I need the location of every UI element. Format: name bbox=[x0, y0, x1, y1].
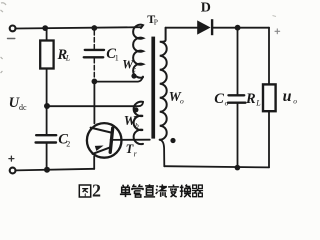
node C2 bottom junction bbox=[44, 167, 50, 173]
node W1 polarity dot bbox=[131, 73, 136, 78]
svg-text:b: b bbox=[135, 121, 139, 130]
node Wb polarity dot bbox=[133, 107, 138, 112]
wire middle rail to Wb bbox=[47, 102, 143, 106]
node output top junction bbox=[235, 25, 241, 31]
resistor RL (base resistor) bbox=[46, 28, 48, 40]
wire W1 bottom to C1 junction bbox=[94, 77, 143, 82]
caption char 变 bbox=[168, 185, 179, 197]
caption: 图 2 (figure 2) drawn strokes bbox=[79, 185, 90, 197]
diode D bbox=[197, 20, 210, 34]
scan smudge above output plus bbox=[273, 16, 277, 17]
caption char 器 bbox=[192, 185, 203, 197]
wire emitter to bottom rail bbox=[93, 156, 95, 169]
svg-text:u: u bbox=[283, 88, 292, 105]
svg-text:C: C bbox=[214, 91, 224, 107]
caption 单管直流变换器 drawn strokes bbox=[120, 184, 203, 197]
resistor RL load bbox=[268, 28, 270, 85]
wire R bottom to middle rail bbox=[46, 69, 48, 107]
transformer core bbox=[151, 37, 155, 139]
emitter arrow (PNP) bbox=[95, 146, 104, 152]
transistor collector lead bbox=[91, 128, 112, 133]
transformer winding Wb (base winding) bbox=[134, 102, 143, 144]
wire Wo bottom to rail bbox=[160, 140, 165, 167]
transformer winding W1 (collector winding) bbox=[133, 25, 143, 78]
transistor emitter lead bbox=[93, 147, 111, 154]
wire top rail bbox=[16, 27, 141, 28]
node C1 bottom junction bbox=[92, 79, 98, 85]
node C1 top junction bbox=[91, 25, 97, 31]
svg-text:2: 2 bbox=[66, 140, 70, 149]
svg-text:2: 2 bbox=[92, 181, 101, 201]
svg-text:o: o bbox=[225, 98, 229, 107]
capacitor Co bbox=[237, 28, 239, 95]
caption char 换 bbox=[180, 185, 191, 198]
node Wo polarity dot bbox=[170, 138, 175, 143]
svg-text:1: 1 bbox=[115, 54, 119, 63]
svg-text:D: D bbox=[201, 1, 211, 16]
wire bottom-left rail bbox=[16, 169, 94, 171]
caption char 图 bbox=[79, 185, 90, 197]
wire diode to output bbox=[213, 27, 269, 29]
capacitor C1 bbox=[93, 31, 95, 50]
transistor Tr circle bbox=[87, 123, 122, 158]
svg-text:o: o bbox=[293, 97, 297, 106]
node bottom-right junction bbox=[235, 165, 241, 171]
scan smudge top-left bbox=[1, 3, 7, 12]
transformer winding Wo (output winding) bbox=[160, 28, 167, 140]
svg-text:L: L bbox=[255, 99, 261, 108]
caption char 流 bbox=[156, 185, 167, 197]
caption char 管 bbox=[132, 184, 143, 197]
wire bottom-right rail bbox=[164, 166, 269, 167]
svg-text:R: R bbox=[245, 91, 256, 107]
caption char 直 bbox=[144, 184, 155, 197]
terminal input top-left (negative) bbox=[10, 26, 16, 32]
plus mark output bbox=[275, 29, 280, 34]
transistor base bar bbox=[110, 128, 113, 152]
terminal input bottom-left (positive) bbox=[10, 168, 16, 174]
svg-text:o: o bbox=[180, 97, 184, 106]
wire collector drop bbox=[93, 82, 95, 124]
node R top junction bbox=[42, 25, 48, 31]
plus mark input bbox=[9, 156, 14, 161]
transistor base lead to Wb bbox=[111, 139, 150, 141]
svg-text:P: P bbox=[154, 18, 158, 27]
svg-text:dc: dc bbox=[19, 103, 27, 112]
svg-text:L: L bbox=[65, 54, 71, 63]
node middle junction bbox=[44, 103, 50, 109]
scan smudge left-edge mid bbox=[1, 57, 3, 73]
minus mark bbox=[8, 38, 15, 40]
capacitor C2 bbox=[46, 106, 48, 135]
wire secondary top bbox=[166, 27, 198, 29]
caption char 单 bbox=[120, 185, 131, 197]
